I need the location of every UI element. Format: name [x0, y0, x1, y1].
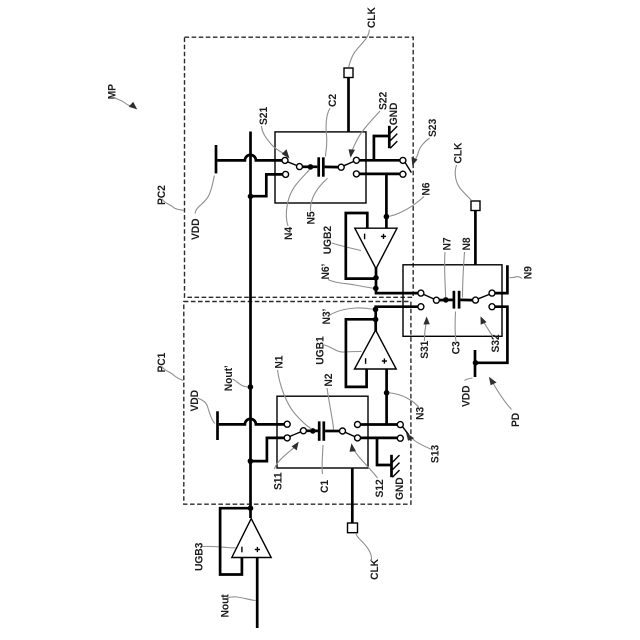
leader S32 [481, 316, 494, 337]
wire upper rail PC2 [359, 159, 400, 162]
svg-text:CLK: CLK [369, 559, 382, 580]
op-amp U1 UGB1 [355, 330, 397, 369]
svg-text:PC2: PC2 [156, 185, 169, 205]
label GND (PC2) [387, 102, 400, 125]
label UGB3 [193, 543, 206, 571]
label VDD (PC1) [189, 390, 202, 412]
label S21 [258, 107, 271, 125]
svg-text:VDD: VDD [189, 390, 202, 412]
switch S32 [473, 290, 496, 310]
op-amp U3 UGB3 [232, 519, 271, 558]
label VDD (PD) [460, 385, 473, 407]
switch S23 [400, 157, 412, 177]
wire UGB1 feedback loop [346, 319, 376, 387]
wire VDD rail PC1 with hop [219, 419, 284, 425]
svg-text:S31: S31 [419, 341, 432, 359]
label N5 [305, 211, 318, 224]
leader UGB1 [323, 345, 362, 353]
svg-text:CLK: CLK [452, 142, 465, 163]
node N1 junction dot [310, 428, 316, 434]
node N3' junction dot [373, 307, 379, 313]
leader PD [489, 377, 512, 410]
label Nout [219, 594, 232, 618]
leader Nout' [233, 379, 248, 387]
svg-text:S32: S32 [489, 334, 502, 352]
leader Nout [227, 597, 256, 601]
svg-text:N3: N3 [414, 407, 427, 420]
wire UGB2 feedback loop [346, 213, 376, 279]
wire upper rail PC1 [361, 423, 398, 426]
label N3' [321, 309, 334, 325]
wire S32 to VDD [476, 307, 507, 363]
wire UGB1 output to S31 lower contact [376, 307, 419, 331]
leader C2 [326, 108, 331, 157]
label C1 [319, 480, 332, 493]
svg-text:MP: MP [106, 84, 119, 99]
svg-text:N1: N1 [273, 356, 286, 369]
leader C3 [455, 312, 456, 342]
wire node N9 stub [495, 265, 507, 293]
label PC1 [156, 353, 169, 373]
leader UGB2 [332, 243, 362, 251]
switch S12 [340, 422, 361, 441]
label CLK (right) [452, 142, 465, 163]
leader CLK (top) [349, 30, 370, 68]
leader S21 [262, 126, 290, 159]
switch S22 [338, 157, 359, 177]
svg-text:N9: N9 [522, 266, 535, 279]
wire UGB1 input [385, 369, 388, 425]
label N7 [441, 237, 454, 250]
label CLK (bottom) [369, 559, 382, 580]
leader PC1 [162, 367, 184, 381]
label S13 [429, 445, 442, 463]
leader CLK (bottom) [356, 534, 372, 561]
switch S21 [282, 157, 303, 177]
svg-text:N5: N5 [305, 211, 318, 224]
leader MP [113, 97, 137, 109]
op-amp U2 UGB2 [355, 228, 397, 269]
junction dot bus-PC1 [248, 458, 254, 464]
wire UGB3 input Nout [256, 558, 259, 629]
svg-text:VDD: VDD [190, 218, 203, 240]
label S31 [419, 341, 432, 359]
switch box PC2 [275, 132, 366, 203]
wire S11 to C1 [306, 429, 318, 432]
junction dot UGB1 feedback tap [373, 317, 379, 323]
node N7 junction dot [443, 297, 449, 303]
svg-text:N4: N4 [283, 227, 296, 240]
svg-text:UGB1: UGB1 [314, 336, 327, 364]
label N8 [461, 237, 474, 250]
node N4 junction dot [308, 164, 314, 170]
label C2 [327, 94, 340, 107]
label N2 [322, 374, 335, 387]
wire lower rail PC1 [361, 437, 398, 440]
svg-text:S23: S23 [426, 119, 439, 137]
leader PC2 [162, 199, 184, 211]
svg-text:UGB2: UGB2 [322, 226, 335, 254]
leader N3' [329, 308, 373, 316]
svg-text:N8: N8 [461, 237, 474, 250]
ground GND (PC1) [377, 438, 400, 477]
leader VDD (PC2) [195, 176, 215, 214]
leader N9 [510, 277, 523, 279]
capacitor C3 [454, 291, 473, 309]
svg-text:GND: GND [394, 477, 407, 500]
leader VDD (PD) [465, 378, 473, 381]
label S23 [426, 119, 439, 137]
switch box PC1 [277, 396, 368, 468]
svg-text:N7: N7 [441, 237, 454, 250]
power VDD (PC2) [215, 145, 218, 173]
label N1 [273, 356, 286, 369]
svg-text:N3’: N3’ [321, 309, 334, 325]
junction dot bus-PC2 [248, 194, 254, 200]
leader UGB3 [203, 546, 236, 547]
switch S31 [418, 290, 440, 310]
svg-text:CLK: CLK [366, 7, 379, 28]
leader N4 [286, 170, 309, 227]
svg-text:S13: S13 [429, 445, 442, 463]
leader N1 [278, 370, 312, 429]
wire S31 to C3 [439, 299, 452, 302]
svg-text:C3: C3 [450, 341, 463, 354]
svg-text:PD: PD [510, 413, 523, 427]
switch S13 [397, 422, 409, 442]
leader VDD (PC1) [198, 398, 216, 424]
label N3 [414, 407, 427, 420]
label CLK (top) [366, 7, 379, 28]
svg-text:S21: S21 [258, 107, 271, 125]
label N6' [319, 264, 332, 280]
wire UGB3 feedback loop [220, 508, 250, 574]
leader N6' [328, 280, 373, 289]
label MP [106, 84, 119, 99]
node N6' junction dot [373, 286, 379, 292]
terminal CLK (bottom) [348, 468, 358, 533]
switch S11 [284, 421, 306, 441]
svg-text:VDD: VDD [460, 385, 473, 407]
leader N3 [390, 393, 420, 408]
svg-text:N2: N2 [322, 374, 335, 387]
label UGB1 [314, 336, 327, 364]
wire S21 to C2 [302, 165, 317, 168]
svg-text:N6: N6 [420, 183, 433, 196]
node Nout' junction dot [248, 384, 254, 390]
label N4 [283, 227, 296, 240]
node Nout' bus wire [249, 132, 252, 519]
leader S22 [349, 111, 381, 158]
leader C1 [321, 445, 324, 474]
leader N2 [327, 388, 333, 430]
label C3 [450, 341, 463, 354]
label GND (PC1) [394, 477, 407, 500]
switch box PD [403, 265, 502, 337]
power VDD (PC1) [216, 411, 219, 440]
label N9 [522, 266, 535, 279]
label S22 [377, 92, 390, 110]
node N6 junction dot [384, 214, 390, 220]
leader CLK (right) [455, 165, 471, 201]
label S12 [373, 479, 386, 497]
svg-text:PC1: PC1 [156, 353, 169, 373]
leader N7 [445, 252, 446, 297]
label PD [510, 413, 523, 427]
label PC2 [156, 185, 169, 205]
svg-text:Nout’: Nout’ [222, 365, 235, 391]
wire lower rail PC2 [359, 173, 400, 176]
dashed box PC2 [185, 37, 414, 297]
leader S31 [423, 317, 429, 342]
leader S23 [412, 138, 430, 166]
junction dot UGB2 feedback tap [373, 275, 379, 281]
label VDD (PC2) [190, 218, 203, 240]
terminal CLK (top) [344, 68, 353, 132]
wire UGB2 output to S31 [376, 268, 418, 294]
label S32 [489, 334, 502, 352]
svg-text:S11: S11 [272, 472, 285, 490]
wire S11 lower contact to bus [251, 438, 285, 461]
label UGB2 [322, 226, 335, 254]
svg-text:C2: C2 [327, 94, 340, 107]
wire UGB2 input from lower rail [385, 174, 388, 228]
svg-text:GND: GND [387, 102, 400, 125]
wire VDD rail PC2 with hop [217, 155, 282, 161]
leader N5 [310, 178, 327, 211]
leader S12 [350, 443, 378, 478]
label S11 [272, 472, 285, 490]
terminal CLK (right) [471, 201, 480, 265]
capacitor C2 [319, 157, 339, 176]
node N3 junction dot [384, 390, 390, 396]
leader S13 [406, 432, 433, 450]
power VDD (PD) [473, 350, 479, 377]
svg-text:S12: S12 [373, 479, 386, 497]
leader S11 [275, 442, 299, 469]
dashed box PC1 [184, 302, 411, 505]
junction dot bus-UGB3 feedback [248, 505, 254, 511]
wire S21 lower contact to bus [251, 174, 283, 196]
svg-text:N6’: N6’ [319, 264, 332, 280]
svg-text:C1: C1 [319, 480, 332, 493]
ground GND (PC2) [374, 126, 397, 161]
label Nout' [222, 365, 235, 391]
capacitor C1 [319, 421, 340, 440]
leader N6 [389, 197, 424, 217]
leader N8 [463, 252, 465, 298]
label N6 [420, 183, 433, 196]
